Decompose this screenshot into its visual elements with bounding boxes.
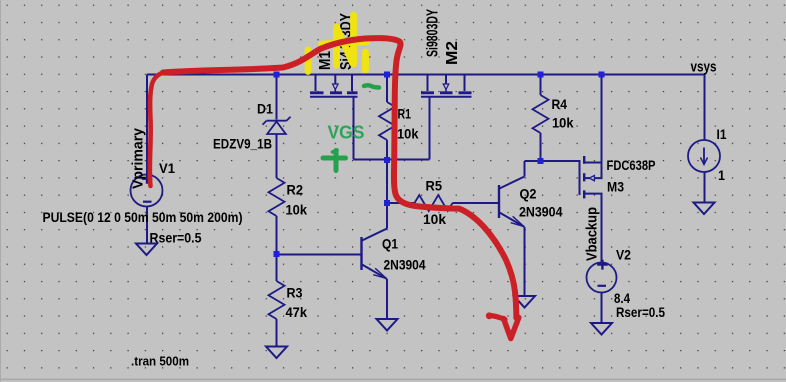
red arrowhead vee [504, 318, 519, 339]
wire base Q1 from divider node [277, 254, 362, 256]
npn transistor Q2 [499, 177, 525, 228]
voltage source V1 [131, 174, 163, 207]
wire D1 tap from rail [276, 75, 278, 120]
svg-text:10k: 10k [286, 201, 308, 217]
red arrowhead tick [489, 316, 506, 320]
resistor R2 [269, 178, 285, 216]
node junction divider R2/R3 [274, 251, 280, 257]
wire V1 top riser [146, 75, 148, 175]
svg-text:Q1: Q1 [382, 236, 398, 252]
wire Q2 emitter riser to ground [524, 227, 526, 296]
svg-text:Q2: Q2 [520, 186, 537, 202]
npn transistor Q1 [362, 229, 388, 280]
wire R3 to ground [276, 319, 278, 346]
node junction gates / R1 bottom [384, 157, 390, 163]
svg-text:10k: 10k [423, 211, 446, 227]
resistor R1 [379, 102, 395, 140]
wire R4 node to M3 gate [541, 160, 580, 162]
wire Q1 collector riser [386, 203, 388, 229]
node junction on rail at R4 [538, 72, 544, 78]
ground Q1 [377, 319, 398, 331]
ground I1 [694, 203, 715, 215]
zener diode D1 [263, 117, 291, 134]
svg-text:R5: R5 [426, 177, 443, 193]
wire Q1 emitter riser to ground [386, 279, 388, 319]
resistor R5 [415, 195, 453, 211]
svg-text:R2: R2 [287, 182, 304, 198]
wire R5 right lead to Q2 base [453, 202, 500, 204]
wire R5 left lead [387, 202, 415, 204]
svg-text:10k: 10k [552, 115, 574, 131]
svg-text:Si9803DY: Si9803DY [425, 9, 442, 57]
svg-text:R3: R3 [287, 284, 303, 300]
ground R3 [266, 347, 287, 359]
voltage source V2 [587, 260, 617, 293]
wire R4 top lead from rail [540, 75, 542, 96]
svg-text:47k: 47k [286, 304, 308, 320]
green annotation small dash near M1 gate [364, 85, 379, 87]
ground Q2 [514, 296, 535, 308]
wire Q2 collector riser [524, 161, 526, 177]
svg-text:V1: V1 [159, 160, 175, 176]
red marker freehand stroke [150, 38, 519, 338]
yellow highlighter marks over M1 labels [308, 15, 367, 72]
node junction R5 / Q1 collector [384, 200, 390, 206]
svg-text:EDZV9_1B: EDZV9_1B [213, 136, 272, 152]
svg-text:FDC638P: FDC638P [607, 157, 656, 173]
wire D1 to R2 [276, 135, 278, 179]
wire R1 top lead from rail node [386, 75, 388, 103]
wire R4 bottom lead [540, 133, 542, 161]
svg-text:2N3904: 2N3904 [519, 204, 563, 220]
current source I1 [688, 140, 720, 172]
wire gates horizontal to R1 bottom node [354, 159, 430, 161]
svg-text:10k: 10k [397, 125, 419, 141]
svg-text:D1: D1 [257, 101, 273, 117]
ground V2 [591, 323, 612, 335]
resistor R4 [533, 95, 549, 133]
svg-text:Rser=0.5: Rser=0.5 [150, 230, 202, 246]
pmos M2 symbol [421, 75, 472, 97]
svg-text:VGS: VGS [328, 123, 365, 143]
svg-text:R4: R4 [552, 96, 568, 112]
node junction on rail at R1/M1-M2 drains [384, 72, 390, 78]
pmos M1 symbol [310, 75, 358, 97]
svg-text:PULSE(0 12 0 50m 50m 50m 200m): PULSE(0 12 0 50m 50m 50m 200m) [43, 209, 243, 225]
wire V2 bottom to ground [601, 293, 603, 323]
wire I1 bottom to ground [704, 172, 706, 202]
wire rail right corner down to I1 [704, 75, 706, 141]
wire Q2 collector to R4 node [525, 160, 541, 162]
node junction R4 bottom / Q2 collector [538, 158, 544, 164]
left edge line [0, 0, 1, 382]
svg-text:R1: R1 [398, 105, 412, 121]
wire main top rail vsys [147, 74, 705, 76]
svg-text:Vbackup: Vbackup [584, 207, 601, 261]
svg-text:V2: V2 [616, 247, 631, 263]
node junction on rail at D1 tap [274, 72, 280, 78]
wire M3 drain riser to rail node [601, 75, 603, 163]
svg-text:.tran 500m: .tran 500m [131, 355, 189, 369]
green annotation plus cross [323, 150, 346, 171]
svg-text:1: 1 [718, 167, 725, 183]
svg-text:2N3904: 2N3904 [384, 257, 426, 273]
svg-text:I1: I1 [717, 126, 727, 142]
svg-text:M1: M1 [317, 51, 334, 70]
svg-text:M2: M2 [444, 41, 461, 65]
pmos M3 symbol [580, 156, 602, 263]
wire M1 gate lead down [353, 97, 355, 160]
svg-text:Vprimary: Vprimary [130, 127, 147, 189]
svg-text:M3: M3 [607, 179, 624, 195]
node junction on rail at M3 drain [599, 72, 605, 78]
svg-text:Rser=0.5: Rser=0.5 [616, 304, 665, 320]
bottom edge line [0, 379, 786, 381]
resistor R3 [269, 281, 285, 319]
wire V1 bottom to ground [146, 207, 148, 244]
wire R2 to node [276, 216, 278, 254]
wire R1 bottom lead [386, 140, 388, 160]
wire M2 gate lead down [429, 97, 431, 160]
wire node to R3 [276, 254, 278, 281]
svg-text:vsys: vsys [691, 59, 717, 76]
ground V1 [136, 244, 157, 256]
wire gate node down to R5 node [386, 160, 388, 204]
